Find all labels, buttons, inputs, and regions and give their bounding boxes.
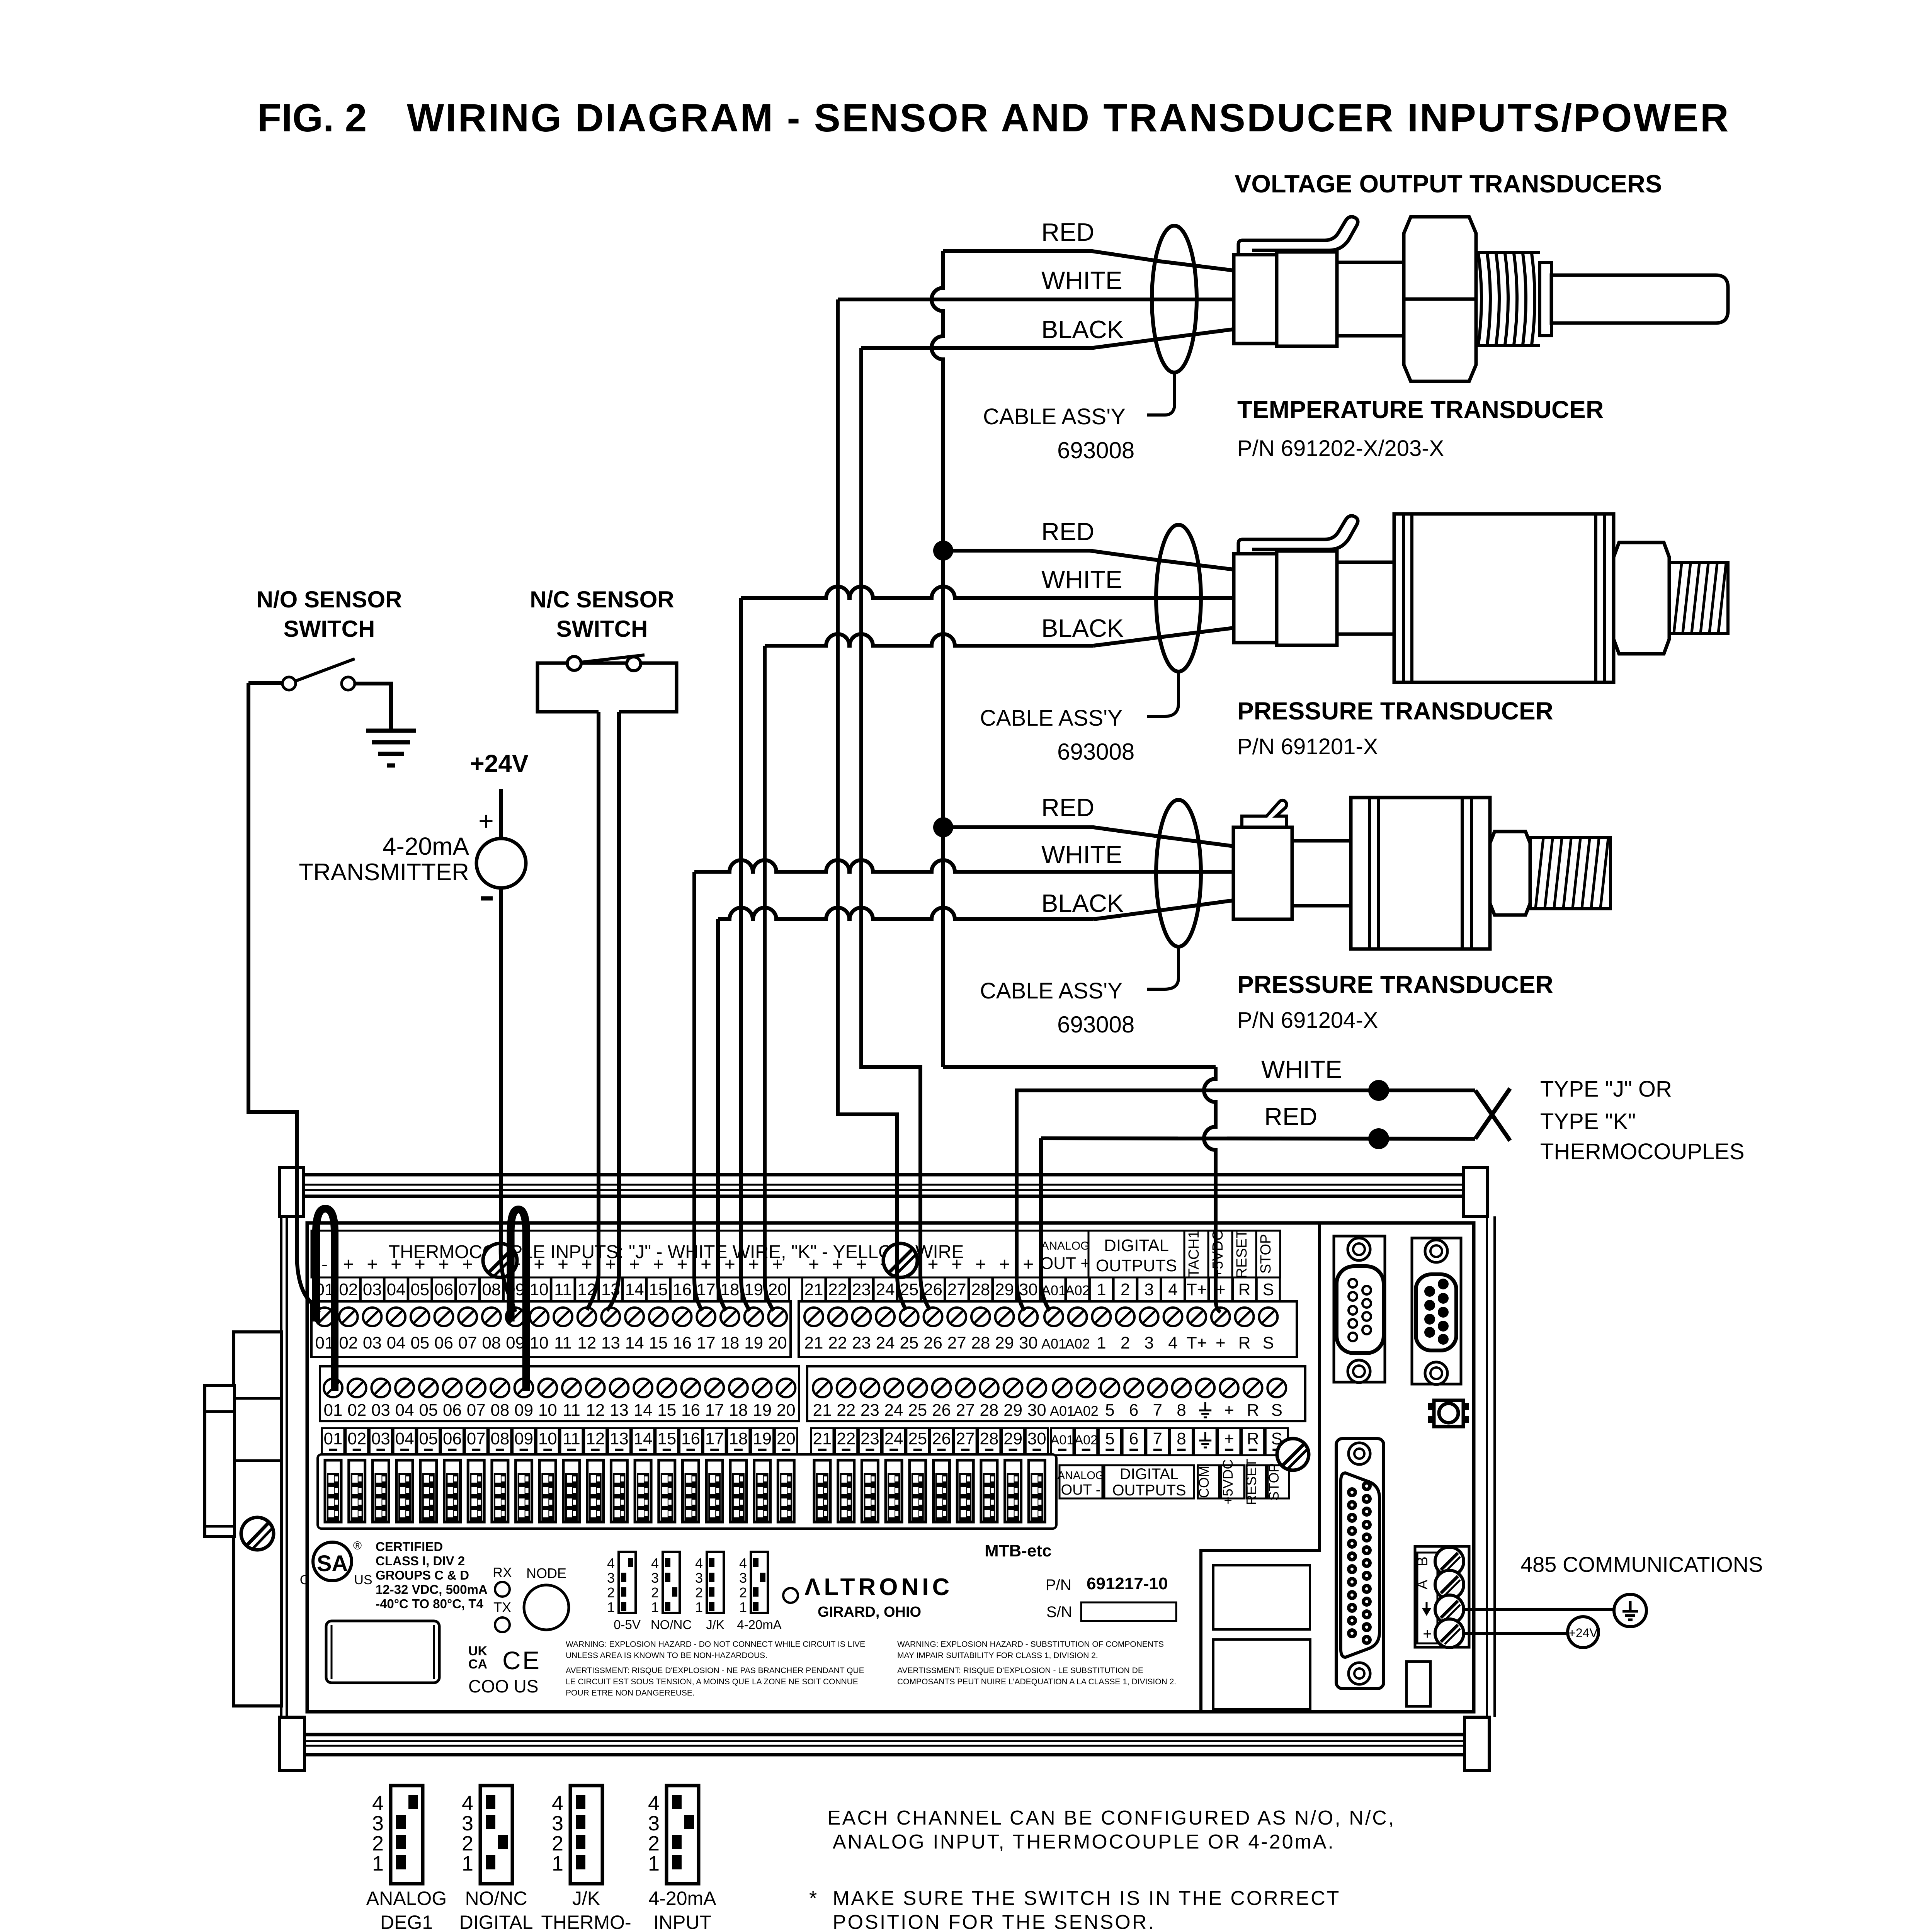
svg-text:+: +	[856, 1254, 867, 1275]
svg-text:3: 3	[372, 1812, 384, 1835]
svg-text:15: 15	[657, 1429, 676, 1448]
svg-text:+: +	[653, 1254, 664, 1275]
svg-text:+: +	[951, 1254, 962, 1275]
svg-text:+24V: +24V	[1568, 1626, 1598, 1640]
wire TD1 BLACK taper	[861, 329, 1234, 348]
svg-text:4: 4	[552, 1792, 563, 1815]
svg-text:2: 2	[552, 1832, 563, 1855]
legend DIP switch J/K	[570, 1786, 602, 1884]
pointer line cable assy TD2	[1147, 673, 1179, 716]
label +5VDC box top	[1208, 1231, 1232, 1277]
svg-text:-40°C TO 80°C, T4: -40°C TO 80°C, T4	[376, 1597, 484, 1611]
svg-text:WARNING: EXPLOSION HAZARD - DO: WARNING: EXPLOSION HAZARD - DO NOT CONNE…	[566, 1640, 865, 1649]
svg-text:24: 24	[884, 1401, 903, 1420]
blank box 2	[1213, 1639, 1310, 1709]
svg-text:22: 22	[828, 1280, 847, 1299]
svg-text:18: 18	[729, 1401, 748, 1420]
svg-text:BLACK: BLACK	[1041, 315, 1124, 344]
svg-text:29: 29	[1003, 1401, 1022, 1420]
DB9 connector J1	[1334, 1236, 1385, 1382]
svg-text:E: E	[522, 1646, 539, 1675]
cable ellipse TD1	[1152, 226, 1197, 372]
label STOP box top	[1256, 1231, 1280, 1277]
svg-text:S: S	[1263, 1333, 1274, 1352]
svg-text:15: 15	[649, 1333, 668, 1352]
svg-text:TACH1: TACH1	[1186, 1230, 1202, 1277]
svg-text:23: 23	[852, 1280, 871, 1299]
svg-text:+: +	[701, 1254, 711, 1275]
svg-text:A02: A02	[1074, 1403, 1099, 1419]
svg-text:A01: A01	[1041, 1282, 1066, 1298]
svg-text:13: 13	[610, 1401, 629, 1420]
svg-text:23: 23	[861, 1401, 879, 1420]
svg-text:THERMO-: THERMO-	[541, 1912, 631, 1932]
svg-text:C: C	[300, 1573, 310, 1587]
jumper loop channel 01	[316, 1209, 335, 1391]
svg-text:05: 05	[419, 1401, 438, 1420]
svg-text:17: 17	[705, 1401, 724, 1420]
rail bracket bottom left	[280, 1717, 304, 1770]
svg-text:20: 20	[768, 1280, 787, 1299]
svg-text:30: 30	[1019, 1333, 1038, 1352]
svg-text:BLACK: BLACK	[1041, 889, 1124, 917]
svg-text:+: +	[975, 1254, 986, 1275]
svg-text:CLASS I, DIV 2: CLASS I, DIV 2	[376, 1554, 465, 1568]
svg-text:3: 3	[552, 1812, 563, 1835]
svg-text:17: 17	[697, 1280, 716, 1299]
svg-text:05: 05	[410, 1280, 429, 1299]
wire TD1 RED taper	[943, 251, 1234, 270]
svg-text:OUT -: OUT -	[1061, 1482, 1101, 1498]
svg-text:17: 17	[697, 1333, 716, 1352]
transmitter circle 4-20mA	[476, 838, 526, 888]
svg-text:S/N: S/N	[1046, 1604, 1072, 1621]
svg-text:20: 20	[777, 1401, 796, 1420]
svg-text:25: 25	[908, 1429, 927, 1448]
svg-text:18: 18	[729, 1429, 748, 1448]
svg-text:1: 1	[651, 1599, 659, 1615]
label TACH1 box	[1184, 1231, 1208, 1277]
svg-text:4: 4	[739, 1555, 747, 1571]
svg-text:19: 19	[744, 1280, 763, 1299]
svg-text:03: 03	[371, 1429, 390, 1448]
svg-text:7: 7	[1153, 1429, 1162, 1448]
DB25 connector J3	[1336, 1439, 1384, 1689]
terminal number boxes row1	[313, 1277, 336, 1301]
svg-text:*: *	[809, 1887, 817, 1910]
svg-text:04: 04	[387, 1333, 406, 1352]
svg-text:4: 4	[651, 1555, 659, 1571]
svg-text:EACH CHANNEL CAN BE CONFIGURED: EACH CHANNEL CAN BE CONFIGURED AS N/O, N…	[827, 1807, 1395, 1829]
svg-text:J/K: J/K	[572, 1888, 600, 1909]
svg-text:24: 24	[876, 1333, 895, 1352]
svg-text:INPUT: INPUT	[653, 1912, 711, 1932]
wire N/O switch right lead to ground	[355, 684, 391, 730]
svg-text:3: 3	[607, 1570, 615, 1586]
svg-text:+: +	[343, 1254, 354, 1275]
svg-text:4: 4	[1168, 1333, 1177, 1352]
wire +24V to transmitter	[499, 789, 503, 839]
svg-text:22: 22	[837, 1401, 855, 1420]
svg-text:1: 1	[739, 1599, 747, 1615]
svg-text:12-32 VDC, 500mA: 12-32 VDC, 500mA	[376, 1582, 488, 1597]
ground circle 485	[1614, 1594, 1646, 1627]
svg-text:GROUPS C & D: GROUPS C & D	[376, 1568, 469, 1582]
label DIGITAL OUTPUTS box bottom	[1104, 1465, 1194, 1498]
svg-text:485 COMMUNICATIONS: 485 COMMUNICATIONS	[1520, 1552, 1763, 1577]
svg-text:+: +	[582, 1254, 592, 1275]
ground symbol below N/O switch	[366, 729, 416, 733]
svg-text:WIRING DIAGRAM - SENSOR AND TR: WIRING DIAGRAM - SENSOR AND TRANSDUCER I…	[407, 96, 1730, 140]
svg-text:15: 15	[649, 1280, 668, 1299]
svg-text:RED: RED	[1041, 793, 1094, 821]
svg-text:S: S	[1271, 1401, 1282, 1420]
wire thermocouple WHITE to terminal 30	[1017, 1090, 1475, 1279]
svg-text:07: 07	[467, 1429, 486, 1448]
svg-text:+24V: +24V	[470, 750, 529, 777]
svg-text:+: +	[1423, 1626, 1432, 1643]
svg-text:MAY IMPAIR SUITABILITY FOR CLA: MAY IMPAIR SUITABILITY FOR CLASS 1, DIVI…	[897, 1651, 1098, 1660]
pressure transducer TD3 threaded stud	[1530, 838, 1611, 909]
svg-text:29: 29	[995, 1280, 1014, 1299]
svg-text:N/C SENSOR: N/C SENSOR	[530, 587, 674, 612]
pressure transducer TD2 hex	[1614, 543, 1669, 654]
svg-text:11: 11	[554, 1333, 572, 1352]
svg-text:SA: SA	[317, 1551, 348, 1576]
svg-text:SWITCH: SWITCH	[556, 616, 648, 642]
svg-text:TRANSMITTER: TRANSMITTER	[299, 859, 469, 886]
svg-text:1: 1	[648, 1852, 660, 1875]
svg-text:25: 25	[908, 1401, 927, 1420]
svg-text:07: 07	[458, 1280, 477, 1299]
label DIGITAL OUTPUTS box top	[1088, 1231, 1184, 1277]
wire N/C switch lead 2 to terminal 13	[607, 712, 619, 1311]
label RESET box bottom	[1247, 1465, 1266, 1498]
svg-text:DIGITAL: DIGITAL	[459, 1912, 533, 1932]
svg-text:14: 14	[625, 1333, 644, 1352]
svg-text:19: 19	[744, 1333, 763, 1352]
svg-text:17: 17	[705, 1429, 724, 1448]
svg-text:RESET: RESET	[1234, 1230, 1250, 1279]
svg-text:A01: A01	[1051, 1433, 1074, 1447]
N/O sensor switch S1	[296, 659, 355, 681]
svg-text:18: 18	[720, 1333, 739, 1352]
svg-text:R: R	[1247, 1401, 1259, 1420]
svg-text:+: +	[1224, 1401, 1234, 1420]
wire TD2 RED from junction	[943, 551, 1234, 570]
svg-text:+: +	[462, 1254, 473, 1275]
temperature transducer TD1 hex nut	[1404, 217, 1476, 381]
svg-text:21: 21	[813, 1401, 832, 1420]
svg-text:CABLE ASS'Y: CABLE ASS'Y	[980, 706, 1122, 731]
terminal strip row1 screws	[311, 1301, 791, 1357]
svg-text:12: 12	[586, 1429, 605, 1448]
svg-text:+: +	[438, 1254, 449, 1275]
svg-text:+: +	[1224, 1429, 1234, 1448]
wire TD1 WHITE drop to terminal 25	[838, 299, 906, 1310]
svg-text:+: +	[629, 1254, 640, 1275]
bottom right small rect	[1406, 1662, 1430, 1706]
svg-text:28: 28	[980, 1401, 998, 1420]
svg-text:22: 22	[828, 1333, 847, 1352]
pushbutton switch	[1428, 1403, 1435, 1410]
svg-text:+: +	[534, 1254, 544, 1275]
svg-text:21: 21	[804, 1280, 823, 1299]
svg-text:07: 07	[458, 1333, 477, 1352]
svg-text:693008: 693008	[1057, 437, 1134, 463]
svg-text:NODE: NODE	[526, 1565, 566, 1581]
svg-text:OUTPUTS: OUTPUTS	[1112, 1482, 1186, 1499]
svg-text:4: 4	[607, 1555, 615, 1571]
svg-text:26: 26	[923, 1280, 942, 1299]
pressure transducer TD3 barrel	[1292, 841, 1351, 906]
svg-text:4-20mA: 4-20mA	[737, 1617, 782, 1632]
svg-text:ANALOG: ANALOG	[1041, 1240, 1089, 1252]
svg-text:3: 3	[1145, 1333, 1154, 1352]
svg-text:04: 04	[387, 1280, 406, 1299]
svg-text:1: 1	[462, 1852, 473, 1875]
junction dot TD3 RED	[933, 817, 953, 837]
svg-text:WHITE: WHITE	[1261, 1055, 1342, 1083]
junction dot thermocouple WHITE	[1368, 1080, 1389, 1101]
wire TD2 BLACK to terminal 20	[765, 634, 1094, 646]
ALTRONIC logo	[783, 1588, 798, 1603]
svg-text:30: 30	[1027, 1401, 1046, 1420]
svg-text:10: 10	[538, 1401, 557, 1420]
svg-text:26: 26	[932, 1401, 951, 1420]
svg-text:06: 06	[443, 1401, 462, 1420]
svg-text:2: 2	[1121, 1333, 1130, 1352]
DB9 connector J2	[1412, 1238, 1461, 1384]
junction dot TD2 RED	[933, 541, 953, 561]
svg-text:16: 16	[681, 1429, 700, 1448]
svg-text:RX: RX	[493, 1565, 512, 1580]
wire TD3 BLACK to terminal 18	[718, 908, 1094, 919]
temperature transducer TD1 probe shoulder	[1540, 262, 1551, 336]
svg-text:08: 08	[490, 1429, 509, 1448]
svg-text:21: 21	[813, 1429, 832, 1448]
svg-text:DIGITAL: DIGITAL	[1120, 1466, 1179, 1483]
left panel screw	[241, 1517, 274, 1550]
svg-text:1: 1	[607, 1599, 615, 1615]
svg-text:4-20mA: 4-20mA	[383, 832, 469, 860]
svg-text:LE CIRCUIT EST SOUS TENSION, A: LE CIRCUIT EST SOUS TENSION, A MOINS QUE…	[566, 1677, 858, 1686]
svg-text:+: +	[391, 1254, 401, 1275]
svg-text:01: 01	[324, 1429, 343, 1448]
svg-text:10: 10	[530, 1333, 549, 1352]
svg-text:691217-10: 691217-10	[1087, 1574, 1168, 1593]
svg-text:COO US: COO US	[468, 1676, 538, 1696]
temperature transducer TD1 connector latch	[1238, 217, 1358, 253]
svg-text:3: 3	[648, 1812, 660, 1835]
svg-text:693008: 693008	[1057, 739, 1134, 765]
svg-text:09: 09	[506, 1333, 525, 1352]
svg-text:OUTPUTS: OUTPUTS	[1096, 1256, 1177, 1275]
svg-text:05: 05	[419, 1429, 438, 1448]
svg-text:11: 11	[563, 1401, 580, 1420]
svg-text:11: 11	[563, 1429, 580, 1448]
svg-text:C: C	[502, 1646, 521, 1675]
svg-text:23: 23	[852, 1333, 871, 1352]
svg-text:02: 02	[347, 1401, 366, 1420]
pressure transducer TD2 barrel	[1337, 562, 1394, 634]
svg-text:WHITE: WHITE	[1041, 840, 1122, 869]
pressure transducer TD2 cylinder body	[1394, 514, 1614, 682]
svg-text:1: 1	[1097, 1280, 1106, 1299]
svg-text:02: 02	[339, 1333, 358, 1352]
junction dot thermocouple RED	[1368, 1128, 1389, 1149]
panel interior divider	[1201, 1223, 1320, 1710]
label STOP box bottom	[1268, 1465, 1289, 1498]
svg-text:06: 06	[434, 1280, 453, 1299]
svg-text:09: 09	[514, 1429, 533, 1448]
svg-text:A02: A02	[1065, 1282, 1090, 1298]
svg-text:TYPE "J" OR: TYPE "J" OR	[1540, 1077, 1672, 1102]
rail bracket top right	[1463, 1168, 1487, 1216]
svg-text:NO/NC: NO/NC	[651, 1617, 692, 1632]
svg-text:02: 02	[347, 1429, 366, 1448]
svg-text:3: 3	[739, 1570, 747, 1586]
svg-text:SWITCH: SWITCH	[284, 616, 375, 642]
N/C switch contacts and lever	[581, 655, 645, 662]
svg-text:02: 02	[339, 1280, 358, 1299]
panel screw near STOP	[1277, 1439, 1309, 1470]
svg-text:5: 5	[1105, 1401, 1114, 1420]
svg-text:10: 10	[530, 1280, 549, 1299]
svg-text:4: 4	[695, 1555, 703, 1571]
svg-text:2: 2	[607, 1585, 615, 1600]
svg-text:8: 8	[1177, 1429, 1186, 1448]
svg-text:04: 04	[395, 1401, 414, 1420]
panel main body	[307, 1223, 1474, 1712]
svg-text:PRESSURE TRANSDUCER: PRESSURE TRANSDUCER	[1237, 697, 1553, 725]
svg-text:UNLESS AREA IS KNOWN TO BE NON: UNLESS AREA IS KNOWN TO BE NON-HAZARDOUS…	[566, 1651, 767, 1660]
svg-text:+: +	[808, 1254, 819, 1275]
wire TD3 WHITE to terminal 17	[694, 860, 1234, 872]
svg-text:+: +	[748, 1254, 759, 1275]
terminal strip row2 screws	[320, 1366, 799, 1421]
label COM box	[1198, 1465, 1219, 1498]
svg-text:S: S	[1263, 1280, 1274, 1299]
svg-text:08: 08	[482, 1333, 501, 1352]
svg-text:ANALOG: ANALOG	[1058, 1469, 1104, 1482]
right mounting column	[1486, 1216, 1488, 1717]
svg-text:A02: A02	[1065, 1336, 1090, 1352]
svg-text:A01: A01	[1050, 1403, 1075, 1419]
svg-text:RED: RED	[1041, 517, 1094, 546]
svg-text:06: 06	[443, 1429, 462, 1448]
svg-text:POSITION FOR THE SENSOR.: POSITION FOR THE SENSOR.	[833, 1911, 1155, 1932]
svg-text:POUR ETRE NON DANGEREUSE.: POUR ETRE NON DANGEREUSE.	[566, 1689, 695, 1697]
svg-text:BLACK: BLACK	[1041, 614, 1124, 642]
svg-text:N/O SENSOR: N/O SENSOR	[257, 587, 402, 612]
svg-text:24: 24	[884, 1429, 903, 1448]
wire N/C switch lead 1 to terminal 12	[587, 712, 599, 1310]
svg-text:+: +	[415, 1254, 425, 1275]
svg-text:14: 14	[634, 1429, 653, 1448]
left mating connector block	[205, 1386, 235, 1537]
svg-text:TX: TX	[493, 1599, 511, 1615]
svg-text:+: +	[605, 1254, 616, 1275]
blank label window	[326, 1621, 439, 1683]
svg-text:+: +	[1023, 1254, 1034, 1275]
svg-text:30: 30	[1019, 1280, 1038, 1299]
svg-text:WHITE: WHITE	[1041, 266, 1122, 294]
svg-text:THERMOCOUPLES: THERMOCOUPLES	[1540, 1139, 1745, 1164]
svg-text:R: R	[1247, 1429, 1259, 1448]
svg-text:4-20mA: 4-20mA	[648, 1888, 716, 1909]
pressure transducer TD3 connector latch	[1242, 800, 1287, 827]
svg-text:04: 04	[395, 1429, 414, 1448]
svg-text:US: US	[354, 1573, 372, 1587]
minus sign transmitter	[481, 896, 493, 901]
svg-text:09: 09	[514, 1401, 533, 1420]
svg-text:+: +	[832, 1254, 843, 1275]
wire N/O switch left lead	[248, 681, 282, 685]
DIN rail bottom	[305, 1733, 1464, 1736]
svg-text:30: 30	[1027, 1429, 1046, 1448]
svg-text:16: 16	[673, 1333, 692, 1352]
svg-text:OUT +: OUT +	[1040, 1254, 1090, 1273]
svg-text:16: 16	[673, 1280, 692, 1299]
svg-text:2: 2	[648, 1832, 660, 1855]
svg-text:4: 4	[372, 1792, 384, 1815]
svg-text:19: 19	[753, 1401, 772, 1420]
wire RED bus horizontal to +5VDC terminal	[943, 1065, 1216, 1069]
label +5VDC box bottom	[1221, 1465, 1244, 1498]
left external DB9 connector block	[234, 1332, 281, 1706]
temperature transducer TD1 barrel	[1337, 262, 1407, 336]
wire 485 +24V	[1464, 1632, 1568, 1635]
svg-text:CA: CA	[468, 1657, 487, 1672]
svg-text:STOP: STOP	[1266, 1463, 1282, 1500]
wire TD1 WHITE	[838, 298, 1234, 301]
svg-text:07: 07	[467, 1401, 486, 1420]
thermocouple X junction	[1475, 1090, 1510, 1141]
svg-text:7: 7	[1153, 1401, 1162, 1420]
svg-text:2: 2	[651, 1585, 659, 1600]
svg-text:03: 03	[371, 1401, 390, 1420]
svg-text:10: 10	[538, 1429, 557, 1448]
svg-text:3: 3	[462, 1812, 473, 1835]
panel screw between 08-09	[483, 1243, 517, 1277]
svg-text:+: +	[558, 1254, 568, 1275]
config DIP switch NO/NC	[663, 1552, 680, 1613]
svg-text:18: 18	[720, 1280, 739, 1299]
svg-text:15: 15	[657, 1401, 676, 1420]
svg-text:1: 1	[372, 1852, 384, 1875]
svg-text:ANALOG INPUT, THERMOCOUPLE OR: ANALOG INPUT, THERMOCOUPLE OR 4-20mA.	[833, 1831, 1335, 1853]
svg-text:27: 27	[947, 1280, 966, 1299]
svg-text:4: 4	[1168, 1280, 1177, 1299]
blank box 1	[1213, 1565, 1310, 1629]
svg-text:2: 2	[1121, 1280, 1130, 1299]
svg-text:13: 13	[601, 1333, 620, 1352]
pressure transducer TD3 cylinder body	[1351, 798, 1490, 949]
svg-text:ΛLTRONIC: ΛLTRONIC	[804, 1574, 953, 1600]
svg-text:14: 14	[634, 1401, 653, 1420]
svg-text:AVERTISSMENT: RISQUE D'EXPLOSI: AVERTISSMENT: RISQUE D'EXPLOSION - LE SU…	[897, 1666, 1143, 1675]
legend DIP switch 4-20mA	[667, 1786, 699, 1884]
label ANALOG OUT - box	[1060, 1465, 1102, 1498]
rail bracket top left	[280, 1168, 304, 1216]
svg-text:25: 25	[900, 1280, 918, 1299]
pressure transducer TD3 connector body	[1233, 827, 1292, 919]
terminal strip top label area	[311, 1231, 1042, 1277]
DIP array enclosure	[318, 1454, 1056, 1529]
svg-text:14: 14	[625, 1280, 644, 1299]
svg-text:3: 3	[695, 1570, 703, 1586]
